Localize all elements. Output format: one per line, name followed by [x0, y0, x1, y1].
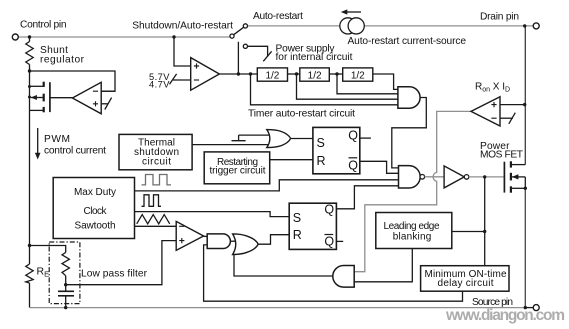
svg-text:blanking: blanking: [393, 232, 432, 243]
svg-text:delay circuit: delay circuit: [438, 278, 494, 289]
svg-text:Leading edge: Leading edge: [384, 221, 440, 232]
svg-text:Auto-restart: Auto-restart: [253, 11, 303, 22]
svg-text:trigger circuit: trigger circuit: [210, 166, 266, 177]
svg-text:Drain pin: Drain pin: [480, 12, 519, 23]
svg-text:Ron X ID: Ron X ID: [475, 82, 510, 94]
svg-text:Q: Q: [348, 158, 358, 172]
svg-text:4.7V: 4.7V: [149, 79, 170, 89]
svg-text:control current: control current: [44, 146, 106, 157]
svg-text:regulator: regulator: [40, 54, 85, 65]
svg-text:1/2: 1/2: [351, 70, 365, 81]
svg-text:for internal circuit: for internal circuit: [276, 52, 353, 63]
svg-text:www.diangon.com: www.diangon.com: [445, 307, 565, 324]
svg-text:1/2: 1/2: [265, 70, 279, 81]
svg-text:Q: Q: [324, 203, 334, 217]
svg-text:Auto-restart current-source: Auto-restart current-source: [348, 36, 467, 47]
svg-text:Q: Q: [324, 235, 334, 249]
svg-text:Max Duty: Max Duty: [74, 187, 116, 198]
svg-text:MOS FET: MOS FET: [480, 150, 523, 161]
svg-text:R: R: [293, 228, 302, 242]
svg-text:S: S: [317, 136, 325, 150]
svg-text:Q: Q: [348, 129, 358, 143]
svg-text:Shutdown/Auto-restart: Shutdown/Auto-restart: [132, 21, 233, 32]
svg-text:1/2: 1/2: [308, 70, 322, 81]
svg-text:Sawtooth: Sawtooth: [75, 220, 116, 231]
svg-text:S: S: [293, 211, 301, 225]
svg-text:Low pass filter: Low pass filter: [81, 269, 148, 280]
svg-text:Clock: Clock: [84, 206, 108, 217]
svg-text:R: R: [317, 154, 326, 168]
svg-text:Timer auto-restart circuit: Timer auto-restart circuit: [248, 109, 355, 120]
svg-text:Control pin: Control pin: [20, 20, 67, 31]
svg-text:PWM: PWM: [44, 134, 70, 145]
svg-text:circuit: circuit: [142, 156, 171, 167]
